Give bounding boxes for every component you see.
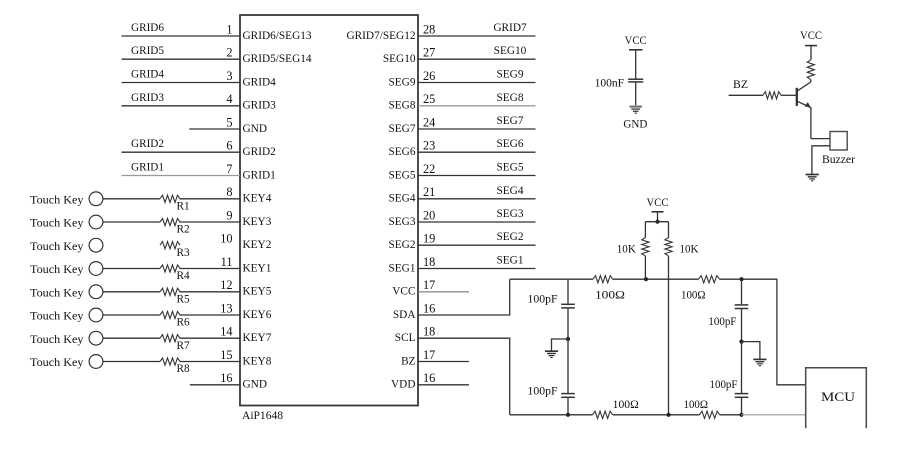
- label 100ohm: [595, 290, 625, 302]
- pin 14 KEY7: [220, 325, 272, 345]
- pin 18 SCL (right side): [395, 325, 436, 345]
- wire GRID2 net: [122, 151, 241, 153]
- svg-text:SEG5: SEG5: [497, 162, 524, 174]
- wire SEG5 net: [418, 175, 536, 177]
- svg-text:15: 15: [220, 348, 232, 362]
- svg-text:VCC: VCC: [392, 286, 415, 298]
- wire: [741, 398, 743, 415]
- svg-text:Touch Key: Touch Key: [30, 264, 84, 276]
- svg-text:1: 1: [226, 22, 232, 36]
- svg-text:SEG10: SEG10: [383, 53, 416, 65]
- svg-text:GND: GND: [243, 379, 267, 391]
- wire SEG6 net: [418, 151, 536, 153]
- svg-text:GND: GND: [623, 119, 647, 131]
- svg-text:GRID6/SEG13: GRID6/SEG13: [243, 30, 312, 42]
- pin 5 GND: [226, 115, 267, 134]
- pin 8 KEY4: [226, 185, 271, 204]
- touch key pad for KEY input (row 12): [30, 285, 103, 300]
- wire SEG9 net: [418, 82, 536, 84]
- node SDA/10K junction: [644, 277, 648, 281]
- wire: [567, 398, 569, 415]
- net label GRID6: [131, 22, 164, 34]
- wire SEG1 net: [418, 268, 536, 270]
- svg-text:Touch Key: Touch Key: [30, 241, 84, 253]
- svg-text:23: 23: [423, 139, 435, 153]
- capacitor 100pF (upper left): [561, 304, 575, 308]
- wire: [741, 309, 743, 342]
- MCU block: [806, 368, 867, 429]
- svg-text:KEY4: KEY4: [243, 193, 272, 205]
- svg-text:16: 16: [423, 301, 435, 315]
- svg-text:2: 2: [226, 46, 232, 60]
- svg-text:100pF: 100pF: [528, 386, 558, 398]
- svg-text:GND: GND: [243, 123, 267, 135]
- net label GRID1: [131, 162, 164, 174]
- svg-text:SEG2: SEG2: [497, 231, 524, 243]
- svg-text:28: 28: [423, 22, 435, 36]
- capacitor 100pF (upper right): [735, 305, 749, 309]
- wire buzzer bottom terminal: [812, 146, 830, 174]
- pin 16 VDD (right side): [391, 371, 435, 391]
- svg-text:6: 6: [226, 139, 232, 153]
- net label SEG4: [497, 185, 524, 197]
- touch key pad for KEY input (row 14): [30, 331, 103, 346]
- svg-text:KEY2: KEY2: [243, 239, 272, 251]
- wire: [720, 414, 742, 416]
- svg-text:SEG7: SEG7: [497, 115, 524, 127]
- svg-text:19: 19: [423, 232, 435, 246]
- svg-text:R2: R2: [177, 224, 191, 236]
- wire GND pin5: [189, 128, 240, 130]
- touch key pad for KEY input (row 13): [30, 308, 103, 323]
- svg-text:18: 18: [423, 255, 435, 269]
- resistor R7: [160, 335, 190, 352]
- pin 1 GRID6/SEG13: [226, 22, 312, 41]
- node VCC junction: [655, 220, 659, 224]
- svg-text:GRID2: GRID2: [131, 138, 164, 150]
- wire pad to resistor: [103, 291, 160, 293]
- wire: [567, 309, 569, 340]
- label 100pF: [528, 294, 558, 306]
- pin 24 SEG7 (right side): [389, 115, 436, 134]
- svg-text:SEG1: SEG1: [389, 262, 416, 274]
- svg-text:SDA: SDA: [393, 309, 416, 321]
- svg-text:R1: R1: [177, 200, 190, 212]
- svg-text:100Ω: 100Ω: [681, 290, 706, 302]
- pin 22 SEG5 (right side): [389, 162, 436, 181]
- svg-text:GRID3: GRID3: [243, 100, 277, 112]
- svg-text:16: 16: [220, 371, 232, 385]
- svg-text:17: 17: [423, 278, 435, 292]
- svg-text:SEG8: SEG8: [389, 100, 416, 112]
- svg-text:16: 16: [423, 371, 435, 385]
- pin 7 GRID1: [226, 162, 275, 181]
- label 10K: [680, 243, 700, 255]
- label 10K: [617, 243, 637, 255]
- resistor 10K (left pull-up): [642, 222, 649, 280]
- wire resistor to IC: [180, 314, 240, 316]
- svg-text:SEG6: SEG6: [389, 146, 416, 158]
- wire pad to resistor: [103, 268, 160, 270]
- pin 16 GND: [220, 371, 267, 391]
- wire VCC to junction: [657, 212, 659, 222]
- resistor R6: [160, 311, 190, 328]
- net label GRID3: [131, 92, 164, 104]
- net label SEG9: [497, 69, 524, 81]
- svg-text:Touch Key: Touch Key: [30, 194, 84, 206]
- svg-text:VCC: VCC: [647, 197, 669, 209]
- wire to MCU corner: [720, 279, 806, 385]
- svg-text:SEG3: SEG3: [389, 216, 416, 228]
- svg-text:7: 7: [226, 162, 232, 176]
- resistor R3: [160, 242, 190, 259]
- wire to MCU (light): [742, 414, 806, 416]
- net label GRID5: [131, 45, 164, 57]
- svg-text:SEG1: SEG1: [497, 255, 524, 267]
- resistor 100ohm (SDA series 2): [699, 276, 720, 283]
- wire cap branch right: [741, 279, 743, 304]
- pin 3 GRID4: [226, 69, 276, 88]
- svg-text:GRID3: GRID3: [131, 92, 164, 104]
- svg-text:8: 8: [226, 185, 232, 199]
- net label SEG3: [497, 208, 524, 220]
- wire GRID5 net: [122, 58, 241, 60]
- svg-text:SEG8: SEG8: [497, 92, 524, 104]
- svg-text:GRID7/SEG12: GRID7/SEG12: [346, 30, 415, 42]
- wire pad to resistor: [103, 314, 160, 316]
- svg-text:3: 3: [226, 69, 232, 83]
- svg-text:R5: R5: [177, 293, 191, 305]
- pin 13 KEY6: [220, 301, 272, 320]
- svg-text:100Ω: 100Ω: [684, 399, 709, 411]
- svg-text:SEG4: SEG4: [497, 185, 524, 197]
- svg-text:27: 27: [423, 46, 435, 60]
- svg-text:SCL: SCL: [395, 332, 416, 344]
- resistor R8: [160, 358, 190, 375]
- svg-text:100nF: 100nF: [595, 77, 625, 89]
- wire pullup top bar: [645, 221, 668, 223]
- wire GRID1 net: [122, 175, 241, 177]
- pin 10 KEY2: [220, 232, 272, 251]
- transistor Q1 (NPN): [797, 88, 811, 108]
- net label GRID2: [131, 138, 164, 150]
- svg-text:13: 13: [220, 301, 232, 315]
- svg-text:5: 5: [226, 115, 232, 129]
- pin 18 SEG1 (right side): [389, 255, 436, 274]
- pin 20 SEG3 (right side): [389, 208, 436, 227]
- pin 17 VCC (right side): [392, 278, 435, 298]
- svg-text:GRID2: GRID2: [243, 146, 277, 158]
- svg-text:14: 14: [220, 325, 232, 339]
- buzzer component: [822, 132, 855, 166]
- wire SEG7 net: [418, 128, 536, 130]
- wire GRID4 net: [122, 82, 241, 84]
- svg-text:24: 24: [423, 115, 435, 129]
- wire resistor to IC: [180, 221, 240, 223]
- net label SEG6: [497, 138, 524, 150]
- capacitor C1 100nF: [628, 79, 643, 82]
- svg-text:BZ: BZ: [733, 79, 748, 91]
- svg-text:Buzzer: Buzzer: [822, 154, 855, 166]
- svg-text:10: 10: [220, 232, 232, 246]
- pin 17 BZ (right side): [401, 348, 435, 367]
- wire: [810, 46, 812, 60]
- resistor R5: [160, 288, 190, 305]
- svg-text:100Ω: 100Ω: [613, 399, 639, 411]
- resistor 100ohm (SCL series 2): [699, 411, 719, 418]
- wire GRID3 net: [122, 105, 241, 107]
- wire SEG3 net: [418, 221, 536, 223]
- svg-text:4: 4: [226, 92, 232, 106]
- pin 9 KEY3: [226, 208, 271, 227]
- svg-text:9: 9: [226, 208, 232, 222]
- touch key pad for KEY input (row 10): [30, 238, 103, 253]
- node cap/gnd junction: [566, 337, 570, 341]
- net label SEG7: [497, 115, 524, 127]
- capacitor 100pF (lower right): [735, 394, 749, 398]
- wire to ground: [552, 339, 569, 351]
- wire SEG10 net: [418, 58, 536, 60]
- svg-text:VCC: VCC: [625, 35, 647, 47]
- wire VDD pin stub: [418, 384, 469, 386]
- svg-text:22: 22: [423, 162, 435, 176]
- wire pad to resistor: [103, 198, 160, 200]
- pin 16 SDA (right side): [393, 301, 435, 320]
- svg-text:Touch Key: Touch Key: [30, 334, 84, 346]
- wire GRID7 net: [418, 35, 536, 37]
- pin 21 SEG4 (right side): [389, 185, 436, 204]
- svg-text:GRID1: GRID1: [131, 162, 164, 174]
- label 100pF: [528, 386, 558, 398]
- wire resistor to IC: [180, 291, 240, 293]
- net label SEG1: [497, 255, 524, 267]
- wire SCL bottom rail: [510, 414, 593, 416]
- power VCC (buzzer): [800, 30, 822, 46]
- pin 2 GRID5/SEG14: [226, 46, 312, 65]
- svg-text:VDD: VDD: [391, 379, 415, 391]
- label 100ohm: [684, 399, 709, 411]
- svg-text:R6: R6: [177, 317, 191, 329]
- touch key pad for KEY input (row 9): [30, 215, 103, 230]
- svg-text:20: 20: [423, 208, 435, 222]
- label 100ohm: [681, 290, 706, 302]
- wire SCL to RC network: [418, 338, 510, 415]
- svg-text:Touch Key: Touch Key: [30, 287, 84, 299]
- wire resistor to IC: [180, 198, 240, 200]
- wire pad to resistor: [103, 337, 160, 339]
- net label SEG5: [497, 162, 524, 174]
- resistor R1: [160, 195, 190, 212]
- label BZ: [733, 79, 748, 91]
- power VCC (decoupling): [625, 35, 647, 50]
- wire: [613, 278, 699, 280]
- wire emitter down: [810, 107, 812, 139]
- wire: [567, 339, 569, 393]
- touch key pad for KEY input (row 8): [30, 192, 103, 206]
- node cap/gnd junction right: [739, 340, 743, 344]
- svg-text:KEY7: KEY7: [243, 332, 272, 344]
- wire resistor to IC: [180, 361, 240, 363]
- svg-text:R8: R8: [177, 363, 191, 375]
- pin 19 SEG2 (right side): [389, 232, 436, 251]
- pin 26 SEG9 (right side): [389, 69, 436, 88]
- svg-text:21: 21: [423, 185, 435, 199]
- wire SEG2 net: [418, 244, 536, 246]
- wire to ground: [742, 342, 760, 359]
- svg-text:Touch Key: Touch Key: [30, 218, 84, 230]
- wire BZ pin stub: [418, 361, 469, 363]
- resistor 10K (right pull-up): [665, 222, 672, 415]
- pin 4 GRID3: [226, 92, 276, 111]
- svg-text:SEG10: SEG10: [494, 45, 527, 57]
- pin 23 SEG6 (right side): [389, 139, 436, 158]
- svg-text:11: 11: [221, 255, 233, 269]
- wire GRID6 net: [122, 35, 241, 37]
- node: [739, 413, 743, 417]
- wire resistor to IC: [180, 337, 240, 339]
- pin 28 GRID7/SEG12 (right side): [346, 22, 435, 41]
- ground (buzzer): [806, 175, 819, 181]
- wire SDA to RC network: [418, 279, 510, 315]
- wire to base: [781, 94, 797, 96]
- svg-text:AiP1648: AiP1648: [242, 410, 283, 422]
- touch key pad for KEY input (row 15): [30, 355, 103, 370]
- node top rail / cap branch: [739, 277, 743, 281]
- svg-text:SEG7: SEG7: [389, 123, 416, 135]
- label GND: [623, 119, 647, 131]
- svg-text:R7: R7: [177, 340, 191, 352]
- ground (signal gnd): [630, 107, 642, 114]
- wire GND pin16: [190, 384, 240, 386]
- svg-text:GRID6: GRID6: [131, 22, 164, 34]
- wire: [635, 50, 637, 79]
- svg-text:Touch Key: Touch Key: [30, 311, 84, 323]
- pin 15 KEY8: [220, 348, 272, 367]
- svg-text:17: 17: [423, 348, 435, 362]
- capacitor 100pF (lower left): [561, 394, 575, 398]
- svg-text:26: 26: [423, 69, 435, 83]
- svg-text:100pF: 100pF: [528, 294, 558, 306]
- wire: [741, 342, 743, 393]
- svg-text:SEG9: SEG9: [497, 69, 524, 81]
- svg-text:KEY1: KEY1: [243, 262, 272, 274]
- net label SEG2: [497, 231, 524, 243]
- svg-text:GRID1: GRID1: [243, 169, 276, 181]
- svg-text:SEG5: SEG5: [389, 169, 416, 181]
- wire SEG8 net: [418, 105, 536, 107]
- svg-text:SEG9: SEG9: [389, 76, 416, 88]
- svg-text:KEY5: KEY5: [243, 286, 272, 298]
- resistor 100ohm (SCL series): [593, 411, 613, 418]
- svg-text:GRID5: GRID5: [131, 45, 164, 57]
- pin 25 SEG8 (right side): [389, 92, 436, 111]
- ground: [545, 351, 558, 357]
- pin 6 GRID2: [226, 139, 276, 158]
- ground: [753, 359, 766, 365]
- wire BZ input: [729, 94, 763, 96]
- wire pad to resistor: [103, 221, 160, 223]
- net label SEG10: [494, 45, 527, 57]
- svg-text:GRID4: GRID4: [243, 76, 277, 88]
- net label GRID4: [131, 69, 164, 81]
- svg-text:18: 18: [423, 325, 435, 339]
- svg-text:MCU: MCU: [821, 390, 855, 404]
- resistor (base series): [763, 92, 781, 99]
- svg-text:Touch Key: Touch Key: [30, 357, 84, 369]
- svg-text:VCC: VCC: [800, 30, 822, 42]
- svg-text:SEG6: SEG6: [497, 138, 524, 150]
- wire to buzzer top terminal: [811, 138, 830, 140]
- node: [566, 413, 570, 417]
- wire SDA top rail segment: [510, 278, 593, 280]
- IC U1 AiP1648 body: [240, 15, 418, 422]
- pin 27 SEG10 (right side): [383, 46, 435, 65]
- svg-text:BZ: BZ: [401, 355, 416, 367]
- net label GRID7: [493, 22, 527, 34]
- svg-text:SEG4: SEG4: [389, 193, 416, 205]
- svg-text:R3: R3: [177, 247, 191, 259]
- svg-text:SEG2: SEG2: [389, 239, 416, 251]
- resistor R4: [160, 265, 190, 282]
- label 100pF: [710, 379, 738, 391]
- svg-text:KEY8: KEY8: [243, 355, 272, 367]
- wire collector: [798, 80, 811, 91]
- svg-text:10K: 10K: [617, 243, 637, 255]
- svg-text:KEY6: KEY6: [243, 309, 272, 321]
- wire cap branch left: [567, 279, 569, 303]
- net label SEG8: [497, 92, 524, 104]
- svg-text:SEG3: SEG3: [497, 208, 524, 220]
- label 100pF: [708, 316, 736, 328]
- power VCC (pull-ups): [647, 197, 669, 212]
- svg-text:10K: 10K: [680, 243, 700, 255]
- wire resistor to IC: [180, 268, 240, 270]
- svg-text:GRID7: GRID7: [493, 22, 527, 34]
- svg-text:GRID5/SEG14: GRID5/SEG14: [243, 53, 312, 65]
- svg-text:KEY3: KEY3: [243, 216, 272, 228]
- svg-text:100pF: 100pF: [710, 379, 738, 391]
- resistor (collector pull-up): [807, 60, 814, 80]
- svg-text:25: 25: [423, 92, 435, 106]
- touch key pad for KEY input (row 11): [30, 262, 103, 277]
- wire VCC pin stub: [418, 291, 469, 293]
- label 100nF: [595, 77, 625, 89]
- wire pad to resistor: [103, 361, 160, 363]
- pin 12 KEY5: [220, 278, 272, 298]
- pin 11 KEY1: [221, 255, 272, 274]
- svg-text:100Ω: 100Ω: [595, 290, 625, 302]
- resistor R2: [160, 218, 190, 235]
- wire: [635, 82, 637, 105]
- svg-text:100pF: 100pF: [708, 316, 736, 328]
- resistor 100ohm (SDA series): [593, 276, 613, 283]
- label 100ohm: [613, 399, 639, 411]
- svg-text:12: 12: [220, 278, 232, 292]
- svg-text:GRID4: GRID4: [131, 69, 164, 81]
- wire: [613, 414, 700, 416]
- svg-text:R4: R4: [177, 270, 191, 282]
- wire SEG4 net: [418, 198, 536, 200]
- node SCL/10K junction: [666, 413, 670, 417]
